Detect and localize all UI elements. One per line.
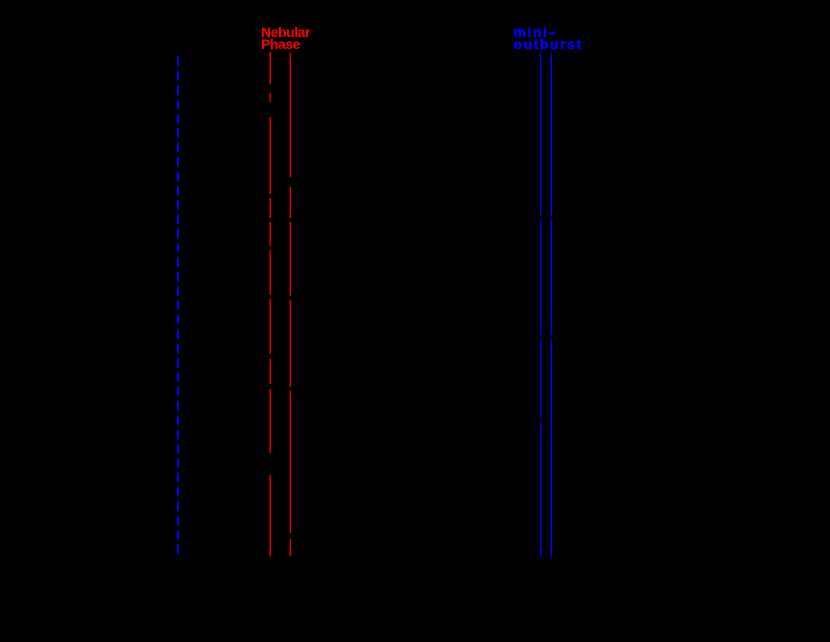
black data-point notches over blue lines: [539, 216, 554, 423]
label: Nebular Phase (red annotation): [261, 26, 310, 51]
black data-point notches over red line 1: [268, 84, 273, 475]
red vertical line 2 (Nebular Phase right bound): [289, 53, 291, 557]
label: mini-outburst (blue annotation): [514, 26, 583, 51]
dashed blue vertical line (outburst start marker): [177, 57, 179, 557]
black data-point notches over red line 2: [288, 177, 293, 539]
blue vertical line 2 (mini-outburst right bound): [550, 53, 552, 557]
blue vertical line 1 (mini-outburst left bound): [540, 53, 542, 557]
red vertical line 1 (Nebular Phase left bound): [269, 52, 271, 556]
